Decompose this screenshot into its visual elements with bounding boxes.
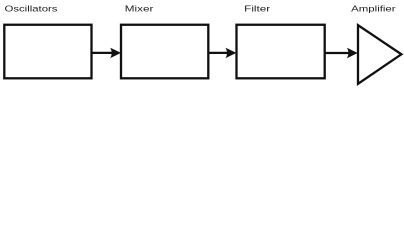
block Amplifier triangle [358,25,401,84]
svg-text:Amplifier: Amplifier [351,4,396,14]
block Mixer box [121,25,208,79]
svg-text:Mixer: Mixer [125,4,154,14]
svg-text:Oscillators: Oscillators [5,4,58,14]
wire arrow Oscillators to Mixer [92,48,122,58]
svg-text:Filter: Filter [244,4,270,14]
block Oscillators box [4,25,91,79]
block Filter box [237,25,325,79]
wire arrow Filter to Amplifier [325,48,358,58]
wire arrow Mixer to Filter [208,48,236,58]
